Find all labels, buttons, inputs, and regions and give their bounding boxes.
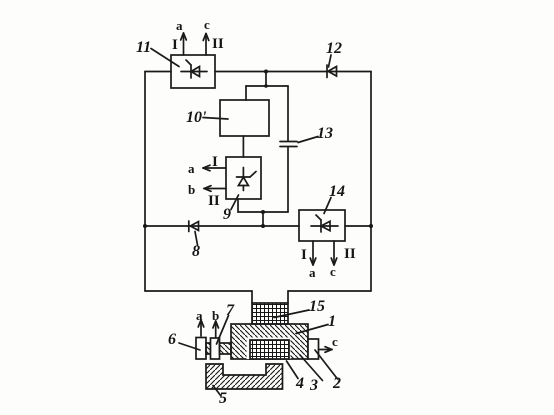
svg-text:II: II [344,246,356,262]
node on top wire [264,70,268,74]
spacer 6-7 [206,343,211,354]
rod 2 [308,339,319,359]
capacitor 13 [280,142,297,147]
svg-text:a: a [176,18,183,33]
wire down to coil right [287,291,289,303]
arrow II (c) above box 11 [203,34,209,56]
box 9 [226,157,261,199]
diode 12 [327,65,337,78]
thyristor in box 9 [237,168,257,191]
label 6 leader [179,343,200,350]
svg-text:10': 10' [186,109,207,126]
node inner T [264,84,268,88]
svg-text:c: c [332,334,338,349]
wire top-left [145,71,171,73]
wire top [215,71,371,73]
label 13 leader [298,137,318,143]
yoke 1 [231,324,308,359]
wire bottom-left [145,290,252,292]
node left main [143,224,147,228]
svg-text:a: a [196,308,203,323]
arrow I (a) below box 14 [310,241,316,265]
base 5 [206,364,283,389]
block 6 [196,338,206,360]
svg-text:7: 7 [226,302,235,319]
block 7 [211,338,220,359]
thyristor in box 14 [311,215,338,232]
node main below 9 [261,224,265,228]
thyristor in box 11 [181,60,207,78]
svg-text:9: 9 [223,206,231,223]
svg-text:a: a [309,265,316,280]
label 5 leader [213,386,221,397]
wire to box 10 top [245,86,247,100]
wire capacitor to bottom [287,147,289,213]
label 4 leader [287,361,299,379]
label 15 leader [274,310,309,318]
svg-text:13: 13 [317,125,333,142]
svg-text:c: c [330,264,336,279]
svg-text:6: 6 [168,331,176,348]
wire box10 to box9 [242,136,244,157]
wire down to coil left [251,291,253,303]
node right main [369,224,373,228]
label 12 leader [329,55,332,67]
label 3 leader [300,355,323,381]
svg-text:I: I [212,154,218,170]
box 11 [171,55,215,88]
inner top horizontal wire [246,85,288,87]
svg-text:b: b [188,182,195,197]
svg-text:II: II [212,36,224,52]
label 9 leader [231,195,239,210]
arrow I (a) above box 11 [181,33,187,55]
diode 8 [189,221,199,232]
node below box 9 [261,210,265,214]
coil 4/3 [250,340,289,359]
label 11 leader [151,49,179,67]
wire to capacitor 13 [287,86,289,141]
arrow II (c) below box 14 [331,241,337,265]
arrow I (a) left of box 9 [203,165,226,171]
svg-text:I: I [172,37,178,53]
wire node to main wire [262,212,264,226]
svg-text:1: 1 [328,313,336,330]
wire box 9 bottom [238,199,288,212]
svg-text:15: 15 [309,298,325,315]
svg-text:a: a [188,161,195,176]
label 7 leader [217,316,229,345]
svg-text:c: c [204,17,210,32]
label 2 leader [315,350,338,379]
svg-text:12: 12 [326,40,342,57]
arrow II (b) left of box 9 [204,186,226,192]
cavity in yoke [247,338,291,360]
wire bottom-right [288,290,371,292]
label 14 leader [324,198,331,214]
svg-text:I: I [301,247,307,263]
svg-text:b: b [212,308,219,323]
svg-text:4: 4 [295,375,304,392]
label 8 leader [195,232,198,246]
left vertical wire [144,72,146,292]
wire drop from top node [265,72,267,87]
label 1 leader [296,325,328,334]
svg-text:2: 2 [332,375,341,392]
arrow b up [213,321,219,337]
svg-text:14: 14 [329,183,345,200]
right vertical wire [370,72,372,292]
svg-text:5: 5 [219,390,227,407]
box 14 [299,210,345,241]
svg-text:8: 8 [192,243,200,260]
coil 15 [252,303,288,324]
svg-text:11: 11 [136,39,151,56]
arrow c output [319,347,333,353]
main middle wire [145,225,299,227]
arrow a up [198,320,204,336]
wire box14 right [345,225,371,227]
svg-text:II: II [208,193,220,209]
svg-text:3: 3 [309,377,318,394]
label 10 leader [203,118,228,120]
spacer 7-1 [220,343,232,354]
box 10 [220,100,269,136]
